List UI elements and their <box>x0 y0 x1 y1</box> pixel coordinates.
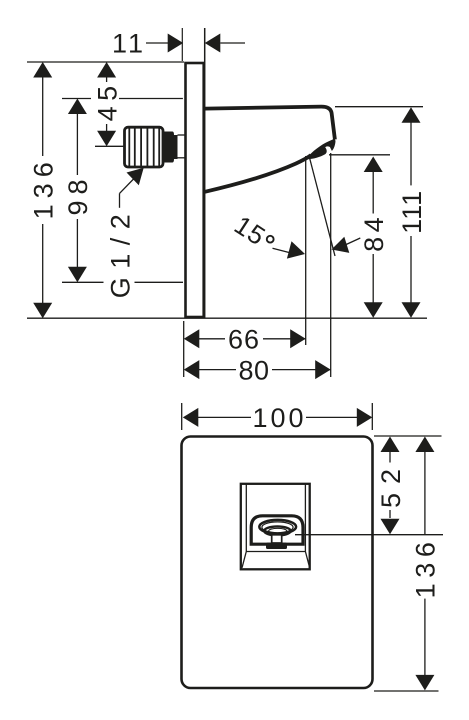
dimension 11 <box>112 29 245 59</box>
svg-text:100: 100 <box>252 403 306 433</box>
dimension 98 <box>62 99 183 283</box>
dimension 100 <box>183 403 372 433</box>
top extension line <box>27 61 184 63</box>
svg-text:45: 45 <box>92 80 122 121</box>
svg-text:G1/2: G1/2 <box>105 206 135 299</box>
svg-text:84: 84 <box>359 213 389 252</box>
bottom extension right of plate <box>374 690 439 692</box>
svg-text:52: 52 <box>376 460 406 508</box>
leader from aerator <box>295 534 443 536</box>
aerator ellipse ring3 <box>264 526 290 535</box>
dimension 66 <box>184 325 306 355</box>
aerator bezel arch <box>251 516 303 544</box>
svg-text:136: 136 <box>29 156 59 219</box>
angle 15 deg lines <box>306 153 335 377</box>
spout aperture outer box <box>241 484 310 570</box>
spout top edge <box>205 107 335 140</box>
wall plate side view <box>186 63 204 317</box>
extension below plate for 66/80 <box>183 321 185 377</box>
label 15 deg with arrows <box>229 210 360 259</box>
wall plate front view <box>182 437 373 689</box>
bottom extension line <box>27 317 427 319</box>
svg-text:80: 80 <box>238 355 269 385</box>
aerator ellipse inner <box>269 528 287 533</box>
aperture inner walls <box>245 485 247 552</box>
spout tip aerator <box>306 139 336 160</box>
dimension 80 <box>184 355 331 385</box>
svg-text:136: 136 <box>411 536 441 598</box>
svg-text:11: 11 <box>112 29 146 59</box>
svg-text:98: 98 <box>63 173 93 215</box>
extension line left of plate top <box>181 28 183 61</box>
extension lines above plate <box>181 403 183 430</box>
dimension 111 <box>397 107 427 318</box>
dimension 45 <box>92 62 123 146</box>
dimension 52 <box>376 437 406 535</box>
extension at aerator level <box>329 154 390 156</box>
wall line <box>204 28 206 318</box>
svg-text:66: 66 <box>228 325 260 355</box>
aerator ellipse outer <box>259 520 296 534</box>
lower tab <box>266 543 287 549</box>
svg-text:111: 111 <box>397 190 427 234</box>
aerator center tab <box>272 535 282 543</box>
label G1/2 with leader <box>105 168 143 298</box>
svg-text:15: 15 <box>229 210 271 252</box>
threaded connector G1/2 <box>125 127 185 167</box>
aerator ellipse ring2 <box>262 522 293 533</box>
dimension 84 <box>359 157 389 318</box>
dimension 136 side view <box>29 62 59 318</box>
extension at spout top level <box>335 106 423 108</box>
dimension 136 front view <box>411 437 441 691</box>
top extension right of plate <box>374 435 442 437</box>
spout underside curve <box>205 155 311 192</box>
